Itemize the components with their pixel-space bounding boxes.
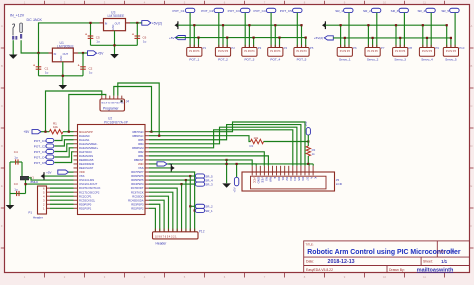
svg-text:1/1: 1/1 xyxy=(441,259,447,264)
wire POT_5 signal xyxy=(296,13,298,48)
P12 pin stubs xyxy=(154,229,156,232)
wires JP1 to PIC RC/RD pins xyxy=(50,187,74,189)
svg-text:11: 11 xyxy=(423,275,426,279)
programmer pin stubs xyxy=(101,96,103,99)
svg-text:RE1WRAN6: RE1WRAN6 xyxy=(79,162,94,166)
svg-text:Servo_5: Servo_5 xyxy=(445,58,457,62)
svg-text:C: C xyxy=(1,104,3,108)
svg-text:POT_4: POT_4 xyxy=(270,58,280,62)
svg-text:D6: D6 xyxy=(301,177,305,181)
wire left rail C4-C3-ground xyxy=(9,162,11,205)
svg-text:A: A xyxy=(471,24,473,28)
wire RD2 to P12 pin1 xyxy=(149,208,155,232)
svg-text:RB4: RB4 xyxy=(138,142,144,146)
wire U1 gnd down xyxy=(62,62,64,85)
svg-text:P7: P7 xyxy=(381,46,385,50)
svg-text:P5: P5 xyxy=(310,46,314,50)
wire C6 branch xyxy=(136,23,138,45)
svg-text:P1 P2 P3: P1 P2 P3 xyxy=(422,50,433,53)
svg-text:RC4SDISDA: RC4SDISDA xyxy=(128,198,144,202)
svg-text:POT_C1: POT_C1 xyxy=(173,9,185,13)
svg-text:DC JACK: DC JACK xyxy=(27,18,43,22)
svg-text:B: B xyxy=(471,64,473,68)
svg-text:RA4T0CKI: RA4T0CKI xyxy=(79,150,92,154)
svg-text:+: + xyxy=(132,33,134,37)
wire POT_4 signal xyxy=(270,13,272,48)
capacitor C1 xyxy=(36,66,42,68)
junction U3 in / C5 xyxy=(89,22,91,24)
wire Servo_4 signal xyxy=(430,13,432,48)
svg-text:MCLR VD GN PGD PGC: MCLR VD GN PGD PGC xyxy=(102,102,125,104)
svg-text:IN: IN xyxy=(54,52,57,56)
lead U3 output xyxy=(126,22,131,24)
svg-text:RB1: RB1 xyxy=(138,154,144,158)
svg-text:+: + xyxy=(78,63,80,67)
svg-text:RA0AN0: RA0AN0 xyxy=(79,134,90,138)
wire RB6 node to R2 xyxy=(149,136,251,142)
svg-text:SR_2: SR_2 xyxy=(363,9,371,13)
wire RD3 to P12 pin2 xyxy=(149,204,160,232)
svg-text:10 9 8 7 6 5 4 3 2 1: 10 9 8 7 6 5 4 3 2 1 xyxy=(155,235,177,238)
ground port arrow at VSS left xyxy=(41,174,44,179)
svg-text:Date:: Date: xyxy=(306,260,314,264)
svg-text:B: B xyxy=(1,64,3,68)
svg-text:GND: GND xyxy=(112,24,115,30)
svg-text:OSC2CLKOUT: OSC2CLKOUT xyxy=(79,182,98,186)
connector JP1 header 6pin xyxy=(38,186,47,214)
wire VDD right rail to LCD VCC flag xyxy=(167,163,313,165)
svg-text:D5: D5 xyxy=(297,177,301,181)
net flag +5V vertical at LCD VCC xyxy=(234,177,238,186)
svg-text:+5V: +5V xyxy=(97,52,104,56)
svg-text:VDD: VDD xyxy=(138,162,144,166)
capacitor C5 xyxy=(88,35,94,37)
resistor R1 10k xyxy=(49,130,63,134)
svg-text:Drawn By:: Drawn By: xyxy=(389,268,405,272)
wire POT +5V bus xyxy=(176,37,306,39)
wire POT_3 signal xyxy=(244,13,246,48)
wire crystal right leg down xyxy=(25,180,27,194)
svg-text:Programer: Programer xyxy=(103,106,119,110)
resistor R2 10k xyxy=(251,139,264,143)
wire RB4 to LCD D5 xyxy=(149,127,297,166)
wire programmer pin2 to R1 right node xyxy=(69,95,106,132)
svg-text:VCC: VCC xyxy=(253,177,257,184)
resistor R3 1k xyxy=(306,146,310,156)
svg-text:RA5AN4SS: RA5AN4SS xyxy=(79,154,93,158)
svg-text:+: + xyxy=(85,33,87,37)
svg-text:+5V: +5V xyxy=(169,36,176,40)
svg-text:1u: 1u xyxy=(143,40,147,44)
wire programmer pin1 to MCLR node xyxy=(46,91,102,132)
junction MCLR programmer tap xyxy=(44,131,46,133)
wire crystal to OSC1 xyxy=(28,178,73,180)
ground rail under U1 xyxy=(39,75,84,77)
svg-text:P4: P4 xyxy=(284,46,288,50)
svg-text:+5V: +5V xyxy=(232,187,236,192)
svg-text:1.0: 1.0 xyxy=(449,250,454,254)
svg-text:VEE: VEE xyxy=(261,177,265,183)
wire POT ground bus xyxy=(178,24,302,26)
svg-text:LCD: LCD xyxy=(336,182,343,186)
regulator U3 LM7805 (second) xyxy=(104,19,126,31)
svg-text:RD3PSP3: RD3PSP3 xyxy=(131,202,144,206)
wire +5V flag to VDD xyxy=(69,171,74,173)
wire Servo_1 power pins xyxy=(340,25,342,47)
wire crystal left leg xyxy=(21,162,23,178)
svg-text:POT_C3: POT_C3 xyxy=(228,9,240,13)
svg-text:RC5SDO: RC5SDO xyxy=(132,194,143,198)
display module J5 LCD outer box xyxy=(242,172,335,191)
capacitor C6 xyxy=(135,35,141,37)
POT_5 pin stubs xyxy=(296,45,298,48)
svg-text:P1 P2 P3: P1 P2 P3 xyxy=(368,50,379,53)
svg-text:RD1PSP1: RD1PSP1 xyxy=(79,206,92,210)
svg-text:POT_C2: POT_C2 xyxy=(201,9,213,13)
wire RB7 to LCD D7 xyxy=(152,122,306,166)
svg-text:J4: J4 xyxy=(126,100,130,104)
svg-text:D2: D2 xyxy=(285,177,289,181)
svg-text:RB2: RB2 xyxy=(138,150,144,154)
svg-text:E: E xyxy=(273,177,277,179)
wire Servo_2 signal xyxy=(376,13,378,48)
wire programmer pin5 to RB6 xyxy=(118,83,159,136)
svg-text:1u: 1u xyxy=(14,188,18,192)
svg-text:POT_3: POT_3 xyxy=(244,58,254,62)
svg-text:C: C xyxy=(471,104,473,108)
svg-text:POT_C4: POT_C4 xyxy=(34,155,46,159)
svg-text:C3: C3 xyxy=(14,182,18,186)
wire POT_1 power pins xyxy=(193,25,195,47)
svg-text:RW: RW xyxy=(269,177,273,182)
wire U1 out to +5V flag xyxy=(78,52,88,54)
svg-text:P6: P6 xyxy=(353,46,357,50)
svg-text:D1: D1 xyxy=(281,177,285,181)
junction OSC2 tap xyxy=(24,183,26,185)
svg-text:+5V: +5V xyxy=(304,121,308,126)
wire Servo_5 signal xyxy=(454,13,456,48)
capacitor C5 branch xyxy=(90,23,92,45)
net flags SR_5 SR_4 SR_3 taps xyxy=(189,175,191,177)
wire Servo_5 power pins xyxy=(446,25,448,47)
LCD pin stubs xyxy=(251,166,253,176)
wire OSC2 xyxy=(26,183,74,185)
wire POT_5 power pins xyxy=(301,25,303,47)
junction U1 out / C2 xyxy=(82,52,84,54)
svg-text:GND: GND xyxy=(60,55,63,61)
title block xyxy=(304,241,470,273)
svg-text:RB5: RB5 xyxy=(138,138,144,142)
svg-text:E: E xyxy=(471,184,473,188)
LCD inner box xyxy=(251,176,327,189)
svg-text:D: D xyxy=(471,144,473,148)
svg-text:Servo_3: Servo_3 xyxy=(394,58,406,62)
svg-text:A: A xyxy=(1,24,3,28)
svg-text:RD0PSP0: RD0PSP0 xyxy=(79,202,92,206)
svg-text:VDD: VDD xyxy=(79,170,85,174)
connector P2 POT_2 xyxy=(215,48,230,57)
lead U1 output xyxy=(73,52,78,54)
wire Servo_2 power pins xyxy=(367,25,369,47)
svg-text:VSS: VSS xyxy=(138,166,144,170)
ground arrow below LCD wire xyxy=(222,183,231,187)
svg-text:PIC16F877A-I/P: PIC16F877A-I/P xyxy=(104,120,129,124)
svg-text:+5V: +5V xyxy=(24,130,31,134)
svg-text:Header: Header xyxy=(156,242,168,246)
svg-text:POT_C3: POT_C3 xyxy=(34,150,46,154)
svg-text:SR_4: SR_4 xyxy=(417,9,425,13)
wire +5V to R1 xyxy=(41,131,49,133)
svg-text:10: 10 xyxy=(383,1,386,5)
svg-text:SR_1: SR_1 xyxy=(335,9,343,13)
wire VSS right to ground port xyxy=(149,167,171,169)
connector P4 POT_4 xyxy=(268,48,283,57)
svg-text:Servo_1: Servo_1 xyxy=(339,58,351,62)
wire jack ground xyxy=(12,40,14,54)
svg-text:TITLE:: TITLE: xyxy=(306,242,314,246)
svg-text:P1 P2 P3: P1 P2 P3 xyxy=(446,50,457,53)
Servo_5 pin stubs xyxy=(446,45,448,48)
ground rail under U3 xyxy=(91,44,138,46)
wire RB3 to LCD D4 xyxy=(149,130,293,166)
wire LCD A pin xyxy=(308,164,310,166)
svg-text:10k: 10k xyxy=(53,125,58,129)
svg-text:RD5PSP5: RD5PSP5 xyxy=(131,178,144,182)
svg-text:MCLR/VPP: MCLR/VPP xyxy=(79,130,93,134)
ground port arrow POT bus xyxy=(175,23,178,28)
svg-text:RC1T1OSICCP2: RC1T1OSICCP2 xyxy=(79,190,100,194)
svg-text:SR_3: SR_3 xyxy=(205,182,213,186)
wire +12V branch up to U3 row xyxy=(39,23,100,53)
svg-text:P1 P2 P3: P1 P2 P3 xyxy=(189,50,200,53)
svg-text:mailtoaswinth: mailtoaswinth xyxy=(417,267,454,273)
svg-text:POT_1: POT_1 xyxy=(189,58,199,62)
wire to LCD VCC vertical flag xyxy=(236,164,238,178)
ground under U3 xyxy=(110,54,119,58)
svg-text:RB7PGD: RB7PGD xyxy=(132,130,143,134)
svg-text:D0: D0 xyxy=(277,177,281,181)
svg-text:+5V(2): +5V(2) xyxy=(152,21,162,25)
svg-text:IN: IN xyxy=(105,22,108,26)
svg-text:E: E xyxy=(1,184,3,188)
junction R3 rail xyxy=(307,163,309,165)
op IC U2 PIC16F877A box xyxy=(78,125,146,215)
U2 pin names xyxy=(79,130,144,211)
wire Servo_3 signal xyxy=(403,13,405,48)
svg-text:RD2PSP2: RD2PSP2 xyxy=(131,206,144,210)
connector P6 Servo_1 xyxy=(337,48,352,57)
wire POT_3 power pins xyxy=(248,25,250,47)
svg-text:P10: P10 xyxy=(459,46,465,50)
net flag +5V at VDD right xyxy=(149,163,157,165)
wire R2 to R3 top xyxy=(264,141,309,143)
wire RB1 to LCD E xyxy=(149,156,268,166)
svg-text:P1: P1 xyxy=(28,210,32,214)
svg-text:POT_C4: POT_C4 xyxy=(254,9,266,13)
Servo_3 pin stubs xyxy=(395,45,397,48)
svg-text:P12: P12 xyxy=(199,230,205,234)
wire LCD VSS pin from row8 xyxy=(227,160,253,166)
connector P1 POT_1 xyxy=(187,48,202,57)
junction R1 right tap xyxy=(68,131,70,133)
svg-text:POT_5: POT_5 xyxy=(297,58,307,62)
svg-text:A: A xyxy=(309,177,313,179)
svg-text:RE0RDAN5: RE0RDAN5 xyxy=(79,158,94,162)
wire R3 bottom to rail xyxy=(307,156,309,164)
svg-text:POT_C1: POT_C1 xyxy=(34,139,46,143)
wire U3 gnd down xyxy=(114,31,116,54)
net flags SR_2 SR_1 taps xyxy=(189,205,191,207)
svg-text:1k: 1k xyxy=(312,152,316,156)
wire jack +12V down and right to U1 xyxy=(21,40,48,53)
wire servo ground bus xyxy=(325,24,446,26)
Servo_1 pin stubs xyxy=(340,45,342,48)
svg-text:GND: GND xyxy=(257,177,261,185)
svg-text:+5V: +5V xyxy=(46,171,51,175)
wire VSS left to ground port xyxy=(44,175,74,177)
svg-text:SR_5: SR_5 xyxy=(441,9,449,13)
svg-text:REV:: REV: xyxy=(439,249,446,253)
svg-text:RC3SCKSCL: RC3SCKSCL xyxy=(79,198,96,202)
svg-text:P1: P1 xyxy=(203,46,207,50)
POT_1 pin stubs xyxy=(189,45,191,48)
wire Servo_4 power pins xyxy=(422,25,424,47)
svg-text:2018-12-13: 2018-12-13 xyxy=(328,259,355,265)
svg-text:LM7805EE: LM7805EE xyxy=(108,14,126,18)
svg-text:R2: R2 xyxy=(250,144,254,148)
svg-text:EasyEDA V5.8.22: EasyEDA V5.8.22 xyxy=(306,268,333,272)
junction U1 gnd rail xyxy=(62,75,64,77)
svg-text:D4: D4 xyxy=(293,177,297,181)
Servo_4 pin stubs xyxy=(422,45,424,48)
svg-text:RC0T1OSOT1CK: RC0T1OSOT1CK xyxy=(79,186,101,190)
wire Servo_1 signal xyxy=(348,13,350,48)
svg-text:OUT: OUT xyxy=(115,22,121,26)
junction +12V split xyxy=(37,52,39,54)
wire POT_4 power pins xyxy=(274,25,276,47)
svg-text:P1 P2 P3: P1 P2 P3 xyxy=(296,50,307,53)
svg-text:RC6TXCK: RC6TXCK xyxy=(131,190,144,194)
wire LCD VCC pin xyxy=(237,164,257,166)
svg-text:C4: C4 xyxy=(14,150,18,154)
ground port arrow servo bus xyxy=(322,23,325,28)
POT_4 pin stubs xyxy=(270,45,272,48)
wire +5V to R3 xyxy=(307,135,309,146)
svg-text:RD4PSP4: RD4PSP4 xyxy=(131,182,144,186)
connector P7 Servo_2 xyxy=(365,48,380,57)
junction U3 out / C6 xyxy=(136,22,138,24)
svg-text:RD6PSP6: RD6PSP6 xyxy=(131,174,144,178)
POT_2 pin stubs xyxy=(218,45,220,48)
wire C1 branch down xyxy=(38,53,40,76)
wire RB2 to LCD RS xyxy=(149,152,264,166)
capacitor C3 xyxy=(10,193,26,195)
svg-text:1u: 1u xyxy=(14,156,18,160)
svg-text:D3: D3 xyxy=(289,177,293,181)
net flag +5V at U1 output xyxy=(88,51,97,56)
svg-text:RD7PSP7: RD7PSP7 xyxy=(131,170,144,174)
svg-text:RS: RS xyxy=(265,177,269,181)
svg-text:Sheet:: Sheet: xyxy=(423,260,433,264)
svg-text:RB3PGM: RB3PGM xyxy=(132,146,144,150)
svg-text:P1 P2 P3: P1 P2 P3 xyxy=(218,50,229,53)
svg-text:VSS: VSS xyxy=(79,174,85,178)
Servo_2 pin stubs xyxy=(367,45,369,48)
svg-text:P3: P3 xyxy=(258,46,262,50)
capacitor C2 xyxy=(80,66,86,68)
svg-text:RC7RXDT: RC7RXDT xyxy=(131,186,144,190)
wire POT_2 signal xyxy=(218,13,220,48)
net flag +5V(2) at U3 output xyxy=(142,21,151,26)
wire RB5 to LCD D6 xyxy=(149,125,301,166)
svg-text:RA2AN2VREF-: RA2AN2VREF- xyxy=(79,142,98,146)
U2 pin stubs left and right xyxy=(74,131,78,133)
svg-text:LM7805EE: LM7805EE xyxy=(57,44,75,48)
svg-text:OUT: OUT xyxy=(63,52,69,56)
svg-text:P1 P2 P3: P1 P2 P3 xyxy=(395,50,406,53)
regulator U1 LM7805 xyxy=(52,48,73,62)
svg-text:D: D xyxy=(1,144,3,148)
svg-text:RA3AN3VREF+: RA3AN3VREF+ xyxy=(79,146,99,150)
wire RB0 to LCD region ground xyxy=(149,160,227,183)
connector P10 Servo_5 xyxy=(443,48,458,57)
wire R1 to MCLR pin xyxy=(63,131,74,133)
svg-text:SR_3: SR_3 xyxy=(391,9,399,13)
svg-text:10k: 10k xyxy=(254,136,259,140)
wire programmer pin4 to RB7 xyxy=(114,87,152,132)
wire Servo_3 power pins xyxy=(395,25,397,47)
POT_3 pin stubs xyxy=(244,45,246,48)
svg-text:P8: P8 xyxy=(409,46,413,50)
connector P8 Servo_3 xyxy=(393,48,408,57)
svg-text:D7: D7 xyxy=(305,177,309,181)
svg-text:+5V(2): +5V(2) xyxy=(314,36,323,40)
svg-text:1u: 1u xyxy=(89,71,93,75)
lead U3 input xyxy=(100,22,104,24)
wire POT_1 signal xyxy=(189,13,191,48)
connector P12 header xyxy=(153,232,199,239)
svg-text:P1 P2 P3: P1 P2 P3 xyxy=(340,50,351,53)
ground under crystal rail xyxy=(6,205,15,209)
wire C2 branch xyxy=(82,53,84,76)
svg-text:RE2CSAN7: RE2CSAN7 xyxy=(79,166,94,170)
capacitor C4 xyxy=(10,161,22,163)
svg-text:1u: 1u xyxy=(96,40,100,44)
svg-text:RC2CCP1: RC2CCP1 xyxy=(79,194,92,198)
svg-text:POT_C5: POT_C5 xyxy=(34,161,46,165)
connector P9 Servo_4 xyxy=(419,48,434,57)
wire servo +5V(2) bus xyxy=(333,37,451,39)
svg-text:P1 P2 P3: P1 P2 P3 xyxy=(270,50,281,53)
wire U3 out to +5V(2) flag xyxy=(130,22,142,24)
svg-text:IN_+12V: IN_+12V xyxy=(10,14,25,18)
svg-text:K: K xyxy=(313,177,317,179)
ground under DC jack xyxy=(9,55,18,59)
svg-text:RA1AN1: RA1AN1 xyxy=(79,138,90,142)
svg-text:POT_C5: POT_C5 xyxy=(280,9,292,13)
svg-text:RB0INT: RB0INT xyxy=(134,158,144,162)
svg-text:SR_1: SR_1 xyxy=(205,209,213,213)
wire POT_2 power pins xyxy=(222,25,224,47)
svg-text:1u: 1u xyxy=(45,71,49,75)
connector J4 Programer xyxy=(100,99,125,111)
connector P5 POT_5 xyxy=(294,48,309,57)
svg-text:POT_2: POT_2 xyxy=(218,58,228,62)
wires RD7..RC4 down to header P12 xyxy=(149,172,195,232)
svg-text:P9: P9 xyxy=(435,46,439,50)
wire LCD K pin xyxy=(312,164,314,166)
connector J1 DC jack symbol xyxy=(12,24,14,36)
